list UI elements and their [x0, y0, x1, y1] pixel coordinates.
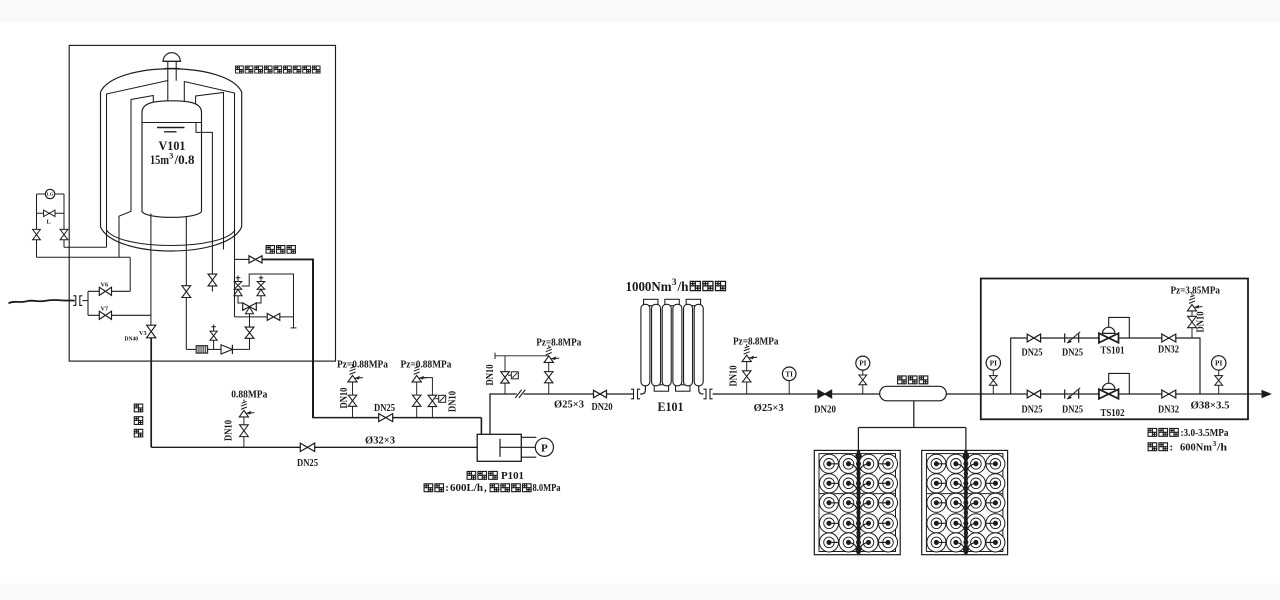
valve V7	[99, 311, 111, 319]
svg-text:Ø32×3: Ø32×3	[365, 435, 395, 447]
valve DN25 on suction	[300, 443, 314, 451]
suction line O32x3	[151, 446, 477, 448]
gas collection drum	[880, 386, 947, 401]
discharge line to vaporizer	[523, 393, 633, 395]
svg-text:Ø25×3: Ø25×3	[754, 403, 784, 414]
label: gas collection drum	[898, 376, 907, 384]
liquid outlet nozzle down to V3	[150, 214, 152, 326]
svg-text:DN10: DN10	[728, 366, 739, 387]
plunger pump P101	[477, 434, 521, 461]
svg-text:TI: TI	[785, 370, 793, 378]
svg-text:DN40: DN40	[125, 336, 139, 343]
svg-text:V3: V3	[139, 330, 147, 337]
svg-text:3: 3	[672, 277, 677, 287]
svg-text:E101: E101	[658, 399, 684, 414]
svg-text:DN20: DN20	[592, 402, 613, 413]
vessel V101	[142, 101, 202, 218]
jumper line over cluster	[242, 274, 294, 328]
svg-text:DN25: DN25	[1062, 405, 1083, 416]
hose coupling flange	[73, 296, 82, 306]
svg-text::: :	[1170, 442, 1174, 454]
svg-text:PI: PI	[1215, 359, 1223, 368]
tank vent dome	[163, 53, 180, 62]
svg-text:Pz=0.88MPa: Pz=0.88MPa	[401, 359, 453, 370]
gas return down leg	[312, 259, 314, 418]
svg-text:V7: V7	[101, 305, 109, 312]
vent branch	[213, 340, 215, 349]
temperature indicator TI	[782, 367, 796, 381]
scan margin bottom strip	[0, 583, 1280, 600]
outer jacket top arc	[101, 69, 242, 92]
main line to outlet box	[946, 393, 1248, 395]
flange at vaporizer outlet	[703, 389, 712, 399]
pressure-build nozzle	[185, 217, 187, 286]
valve V3	[147, 325, 156, 338]
neck pipes	[168, 68, 176, 80]
svg-text:3: 3	[1213, 439, 1217, 448]
svg-text:PI: PI	[990, 359, 998, 368]
svg-text:DN32: DN32	[1158, 345, 1179, 356]
outlet regulation skid box	[981, 279, 1248, 420]
svg-text:Pz=8.8MPa: Pz=8.8MPa	[536, 338, 582, 349]
svg-text:PI: PI	[859, 360, 866, 368]
svg-text:/0.8: /0.8	[173, 153, 194, 167]
wire	[256, 296, 261, 303]
safety valve SV-b	[259, 276, 264, 281]
PI root valve	[1215, 376, 1223, 386]
LG lower tap line into tank	[37, 256, 131, 258]
heater line	[186, 348, 196, 350]
vessel head weld seam	[142, 122, 202, 124]
drum down leg	[913, 401, 915, 428]
svg-text:DN10: DN10	[485, 365, 496, 386]
LG right leg	[63, 194, 65, 247]
LG upper tap line into tank	[64, 246, 107, 248]
liquid level mark upper	[157, 127, 185, 129]
svg-text:Pz=0.88MPa: Pz=0.88MPa	[337, 359, 389, 370]
vent pipe right arch down to valve cluster	[184, 82, 234, 317]
cluster bottom valve	[245, 327, 254, 338]
valve DN25 (top branch)	[1027, 334, 1040, 342]
svg-text:TS102: TS102	[1101, 407, 1125, 419]
vaporizer E101 tube bundle	[644, 299, 658, 305]
valve V6	[99, 287, 111, 295]
cluster cross line	[235, 316, 294, 318]
level gauge LG	[45, 189, 54, 198]
valve DN25 (main)	[1027, 390, 1040, 398]
svg-text:DN25: DN25	[1062, 348, 1083, 359]
svg-text:DN32: DN32	[1158, 404, 1179, 415]
svg-text:LG: LG	[47, 192, 54, 197]
svg-text:DN25: DN25	[1022, 404, 1043, 415]
wire	[235, 258, 250, 260]
three-way valve	[243, 303, 257, 310]
dome neck	[168, 61, 176, 68]
pressure indicator PI	[856, 356, 870, 370]
rack header	[858, 427, 966, 429]
PI root valve	[989, 376, 997, 386]
pump vapor feed drop	[480, 418, 482, 435]
relief discharge to flag valve	[421, 378, 433, 396]
liquid level mark lower	[164, 131, 177, 133]
pump piston	[499, 439, 501, 457]
pump motor P	[535, 438, 553, 456]
svg-text:DN20: DN20	[814, 405, 836, 416]
label: outlet pressure 3.0-3.5MPa	[1148, 428, 1157, 436]
svg-text:Pz=3.85MPa: Pz=3.85MPa	[1171, 286, 1221, 297]
stub end	[211, 286, 213, 292]
svg-text:TS101: TS101	[1101, 344, 1125, 356]
rack 1 feed	[857, 428, 859, 451]
dome flange	[165, 67, 180, 69]
LG left isolation valve	[33, 229, 41, 239]
cylinder rack 1	[814, 450, 900, 554]
vapor suction manifold	[312, 417, 481, 419]
svg-text:1000Nm: 1000Nm	[626, 279, 673, 294]
outlet arrow	[1248, 393, 1262, 395]
label: flow 600L/h, outlet pressure 8.0MPa	[424, 484, 433, 492]
scan margin top strip	[0, 0, 1280, 21]
label: plunger pump P101	[467, 471, 476, 479]
svg-text:/h: /h	[1216, 442, 1227, 454]
throttle valve DN25 (main)	[1065, 389, 1079, 398]
wire	[713, 393, 880, 395]
V7 line	[88, 314, 151, 316]
label: gas return pipe	[266, 246, 274, 254]
label: see liquid-oxygen storage tank flow diagram	[236, 66, 244, 73]
liquid feed pipe thick	[150, 338, 152, 448]
svg-text:Pz=8.8MPa: Pz=8.8MPa	[733, 337, 779, 348]
cylinder rack 2	[922, 450, 1008, 554]
svg-text:DN25: DN25	[297, 458, 318, 469]
fill hose	[9, 300, 75, 303]
pressure indicator PI (outlet)	[1212, 356, 1226, 370]
LG left leg	[36, 194, 38, 257]
LG top header	[37, 193, 65, 195]
flange at vaporizer inlet	[631, 389, 640, 399]
check valve on heater line	[221, 345, 232, 354]
pressure regulator TS102	[1109, 373, 1130, 394]
outer jacket bottom arc	[101, 227, 242, 251]
label: flow 600Nm3/h	[1148, 443, 1157, 451]
header end cap	[291, 327, 297, 329]
LG liquid-phase pipe arch	[119, 96, 153, 258]
LG right isolation valve	[60, 229, 68, 239]
valve DN20 before vaporizer	[594, 390, 607, 397]
svg-text:600Nm: 600Nm	[1180, 442, 1212, 454]
svg-text:Ø25×3: Ø25×3	[554, 399, 584, 410]
valve DN20 after vaporizer	[818, 390, 832, 398]
inner liner / LG gas-phase pipe left arch	[107, 81, 168, 248]
LG bypass valve L	[44, 210, 55, 216]
svg-text:600L/h: 600L/h	[450, 482, 483, 494]
svg-text:DN10: DN10	[1195, 312, 1206, 333]
rack 2 feed	[965, 428, 967, 451]
gas return valve	[249, 256, 262, 263]
pump cylinder lines	[521, 437, 536, 457]
svg-text::: :	[445, 482, 449, 494]
valve DN32 (top branch)	[1162, 334, 1176, 342]
fill header vertical	[87, 291, 89, 315]
svg-text:L: L	[47, 219, 51, 226]
svg-text:DN10: DN10	[447, 391, 458, 412]
LG bypass line	[37, 212, 65, 214]
top regulating branch	[1011, 338, 1200, 394]
svg-text:15m: 15m	[150, 153, 169, 167]
svg-text:8.0MPa: 8.0MPa	[533, 482, 561, 494]
wire	[185, 298, 187, 350]
wire	[249, 338, 251, 349]
outer jacket side walls	[101, 92, 242, 227]
dip tube / gas use nozzle	[196, 123, 212, 275]
svg-text:/h: /h	[677, 279, 689, 294]
vent valve on heater line	[210, 331, 217, 340]
pump rod	[500, 446, 535, 448]
wire	[238, 296, 243, 303]
pressure regulator TS101	[1109, 317, 1130, 338]
label: liquid inlet pipe (vertical)	[134, 404, 142, 412]
burst disc valve	[428, 395, 437, 406]
inner pipe right arch	[196, 93, 224, 250]
PI root valve	[859, 375, 867, 385]
header end tick	[494, 353, 496, 359]
wire	[82, 300, 88, 302]
svg-text:0.88MPa: 0.88MPa	[231, 389, 268, 400]
wire	[208, 348, 221, 350]
svg-text:P: P	[541, 442, 548, 454]
gas return thick line	[262, 258, 313, 260]
inlet elbow	[640, 386, 645, 394]
svg-text:Ø38×3.5: Ø38×3.5	[1191, 401, 1230, 412]
svg-text::3.0-3.5MPa: :3.0-3.5MPa	[1181, 427, 1230, 439]
svg-text:P101: P101	[501, 470, 524, 482]
pressure indicator PI (inlet)	[986, 356, 1000, 370]
pressure-build valve	[182, 286, 191, 298]
svg-text:,: ,	[484, 482, 487, 494]
svg-text:V6: V6	[101, 281, 109, 288]
gauge header	[495, 355, 549, 357]
svg-text:DN25: DN25	[374, 403, 395, 414]
TI stub	[788, 381, 790, 394]
wire	[249, 314, 251, 327]
inner jacket bottom arc	[107, 230, 236, 246]
gauge valve with flag	[501, 372, 510, 383]
pump discharge	[490, 394, 517, 434]
tank unit enclosure box	[69, 45, 335, 361]
safety valve SV-a	[236, 276, 241, 281]
pipe break symbol	[515, 390, 525, 398]
finned pressure-building heater	[196, 346, 207, 353]
svg-text:DN25: DN25	[1022, 347, 1043, 358]
outlet elbow	[699, 386, 704, 394]
valve DN32 (main)	[1162, 390, 1176, 398]
wire	[232, 348, 249, 350]
valve DN25 on vapor line	[379, 414, 393, 422]
V6 line	[88, 290, 130, 292]
svg-text:3: 3	[169, 152, 173, 161]
gas stub valve	[208, 274, 217, 286]
V6 riser	[129, 257, 131, 291]
throttle valve DN25 (top)	[1065, 333, 1079, 342]
svg-text:DN10: DN10	[339, 388, 350, 409]
gauge branch DN10	[504, 383, 506, 394]
svg-text:DN10: DN10	[224, 420, 235, 441]
cluster horizontal valve	[267, 313, 280, 320]
